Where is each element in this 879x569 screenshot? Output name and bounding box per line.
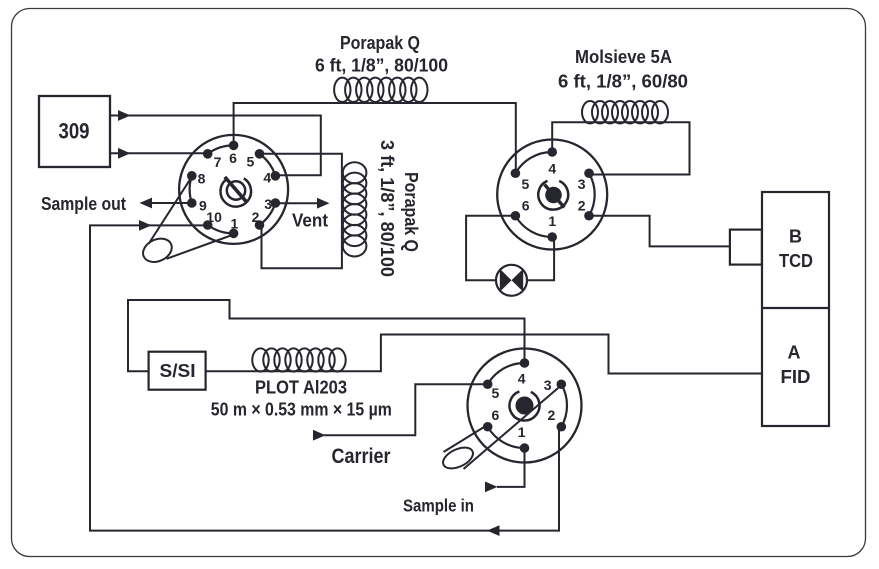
svg-text:6 ft, 1/8”, 80/100: 6 ft, 1/8”, 80/100 [315, 56, 448, 76]
svg-text:PLOT Al203: PLOT Al203 [255, 378, 347, 398]
column coil Porapak Q 3 ft (vertical) [343, 162, 367, 256]
svg-text:Molsieve 5A: Molsieve 5A [575, 47, 672, 67]
svg-text:10: 10 [206, 209, 222, 225]
column coil PLOT Al2O3 [252, 348, 345, 371]
box S/SI [149, 352, 206, 390]
arrow Carrier [313, 430, 326, 441]
svg-text:Porapak Q: Porapak Q [340, 33, 420, 53]
svg-text:B: B [789, 227, 802, 247]
wire 309 to valve V1 port 7 [110, 152, 208, 154]
wire S/SI through PLOT column to A FID [206, 335, 762, 374]
valve V2 Molsieve 6-port body [497, 140, 607, 250]
wire S/SI inlet from V3 port 4 [128, 300, 525, 371]
arrow on 309 lower line [118, 148, 131, 159]
svg-text:5: 5 [522, 176, 530, 192]
svg-text:6: 6 [522, 197, 530, 213]
svg-text:2: 2 [548, 407, 556, 423]
svg-text:A: A [788, 343, 801, 363]
svg-text:Porapak Q: Porapak Q [401, 172, 421, 252]
svg-text:Carrier: Carrier [332, 445, 391, 468]
wire V2 port 2 to TCD inlet [589, 216, 730, 247]
svg-text:3: 3 [544, 377, 552, 393]
wire V2 port 6 to restrictor to V2 port 1 [466, 216, 554, 281]
svg-text:Sample out: Sample out [41, 194, 126, 214]
svg-text:Sample in: Sample in [403, 495, 474, 515]
svg-text:2: 2 [578, 197, 586, 213]
wire V3 port 2 to bottom rail to V1 port 10 [90, 225, 559, 530]
column coil Porapak Q 6 ft [334, 78, 427, 102]
svg-text:50 m × 0.53 mm × 15 µm: 50 m × 0.53 mm × 15 µm [211, 400, 392, 420]
svg-text:S/SI: S/SI [160, 360, 196, 381]
arrow Vent [317, 198, 330, 209]
V3 port numbers [492, 371, 556, 440]
svg-text:1: 1 [231, 215, 239, 231]
column coil Molsieve 5A [582, 101, 668, 123]
TCD inlet fitting [730, 230, 762, 265]
svg-text:8: 8 [198, 171, 206, 187]
V2 port numbers [522, 161, 586, 230]
box 309 [39, 96, 110, 167]
arrow on 309 upper line [118, 110, 131, 121]
V1 center symbol [220, 177, 251, 207]
valve V3 injection 6-port body [468, 349, 582, 463]
arrow Sample in [485, 482, 498, 493]
sample loop lasso V3 ports 6-3 [440, 386, 561, 473]
wire V2 port 4 through Molsieve column to V2 port 3 [552, 122, 689, 174]
wire 309 to valve V1 port 4 [110, 116, 321, 176]
arrow into V1 port 10 [139, 220, 152, 231]
svg-text:6 ft, 1/8”, 60/80: 6 ft, 1/8”, 60/80 [558, 72, 688, 92]
wire V1 port 6 to column Porapak Q 6ft to valve V2 port 5 [234, 103, 516, 172]
V3 rotor arcs [488, 363, 567, 448]
svg-text:2: 2 [252, 209, 260, 225]
restrictor valve symbol [496, 265, 527, 296]
V2 center symbol [538, 181, 568, 210]
svg-text:6: 6 [229, 150, 237, 166]
wire Carrier to V3 port 5 [324, 384, 487, 435]
svg-text:1: 1 [548, 213, 556, 229]
V3 port dots [483, 358, 566, 453]
svg-text:5: 5 [247, 154, 255, 170]
valve V1 10-port body [179, 135, 288, 244]
svg-text:FID: FID [781, 367, 811, 387]
wire V1 port 5 to vertical column to V1 port 2 [260, 154, 342, 268]
svg-text:Vent: Vent [292, 211, 328, 231]
V2 port dots [511, 147, 594, 242]
V2 rotor arcs [515, 152, 594, 237]
V1 rotor arcs [190, 145, 276, 233]
wire V1 port 3 to Vent [275, 202, 317, 204]
wire V3 port 1 to Sample in arrow [497, 449, 525, 487]
divider TCD/FID [762, 307, 829, 309]
V1 port dots [187, 141, 280, 239]
svg-text:TCD: TCD [779, 251, 813, 271]
svg-text:6: 6 [492, 407, 500, 423]
svg-text:7: 7 [214, 154, 222, 170]
svg-text:3 ft, 1/8”, 80/100: 3 ft, 1/8”, 80/100 [377, 140, 397, 277]
sample loop lasso V1 ports 8-1 [139, 177, 233, 267]
svg-text:309: 309 [59, 119, 90, 144]
svg-text:3: 3 [578, 176, 586, 192]
arrow on bottom rail (left pointing) [487, 525, 500, 536]
svg-text:1: 1 [518, 424, 526, 440]
svg-text:4: 4 [518, 371, 526, 387]
svg-text:4: 4 [548, 161, 556, 177]
wire V1 port 9 to Sample out [152, 202, 192, 204]
arrow Sample out [140, 198, 153, 209]
detector box B TCD / A FID [762, 192, 829, 426]
V1 port numbers [198, 150, 273, 231]
svg-text:5: 5 [492, 385, 500, 401]
svg-text:3: 3 [264, 196, 272, 212]
V3 center symbol [509, 391, 539, 420]
svg-text:4: 4 [263, 170, 271, 186]
